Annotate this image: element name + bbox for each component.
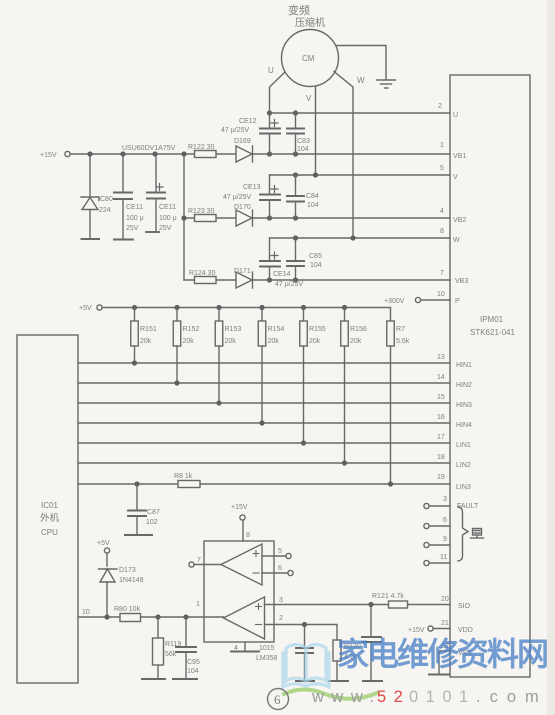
resistor R151 20k xyxy=(131,308,157,364)
svg-text:HIN2: HIN2 xyxy=(456,382,472,389)
node dot R155/LIN1 xyxy=(301,440,306,445)
svg-text:R123 30: R123 30 xyxy=(188,208,215,215)
wire compressor to ground xyxy=(337,46,387,80)
pin 7 VB3 xyxy=(440,270,468,285)
svg-text:LM358: LM358 xyxy=(256,655,278,662)
svg-text:14: 14 xyxy=(437,374,445,381)
svg-text:C95: C95 xyxy=(187,659,200,666)
pin 2 U xyxy=(438,103,458,119)
svg-text:8: 8 xyxy=(246,532,250,539)
svg-text:外机: 外机 xyxy=(40,512,60,524)
node dots on VB2 row xyxy=(181,215,298,220)
ground (C87) xyxy=(125,534,152,536)
svg-text:18: 18 xyxy=(437,454,445,461)
ground (VSS) xyxy=(429,674,449,676)
svg-text:11: 11 xyxy=(440,554,447,561)
svg-text:家电维修资料网: 家电维修资料网 xyxy=(337,636,547,672)
capacitor C95 104 xyxy=(176,617,200,678)
node dot R154/HIN4 xyxy=(259,420,264,425)
svg-text:20: 20 xyxy=(441,596,449,603)
svg-text:CE13: CE13 xyxy=(243,184,261,191)
svg-text:104: 104 xyxy=(187,668,199,675)
svg-text:25V: 25V xyxy=(126,225,139,232)
svg-text:1: 1 xyxy=(196,601,200,608)
svg-text:3: 3 xyxy=(279,597,283,604)
op-amp U2 LM358 box xyxy=(204,541,278,662)
svg-text:www.: www. xyxy=(311,688,381,706)
resistor R152 20k xyxy=(173,308,199,384)
wire VB2 feed vertical xyxy=(183,154,185,280)
svg-text:2: 2 xyxy=(279,615,283,622)
+5V terminal xyxy=(79,305,102,312)
svg-text:U: U xyxy=(268,66,274,75)
svg-text:2: 2 xyxy=(438,103,442,110)
svg-text:13: 13 xyxy=(437,354,445,361)
resistor R8 1k xyxy=(174,473,200,488)
svg-text:100 μ: 100 μ xyxy=(159,215,177,222)
svg-text:C85: C85 xyxy=(309,253,322,260)
svg-text:IPM01: IPM01 xyxy=(480,315,504,324)
ground (pin2 cap) xyxy=(296,680,314,682)
svg-text:20k: 20k xyxy=(225,338,237,345)
svg-text:104: 104 xyxy=(307,202,319,209)
pin 18 LIN2 xyxy=(437,454,471,469)
svg-text:LIN3: LIN3 xyxy=(456,484,471,491)
pin 19 LIN3 xyxy=(437,474,471,491)
svg-text:7: 7 xyxy=(440,270,444,277)
wire P row (pin 10) xyxy=(421,299,450,301)
svg-text:15: 15 xyxy=(437,394,445,401)
svg-text:1N4148: 1N4148 xyxy=(119,577,144,584)
watermark green swoosh xyxy=(284,690,377,699)
svg-text:IC01: IC01 xyxy=(41,501,58,510)
IPM U1 (IPM01 STK621-041) xyxy=(450,75,530,677)
svg-text:224: 224 xyxy=(99,207,111,214)
svg-text:VB2: VB2 xyxy=(453,217,466,224)
ground (CE11 first) xyxy=(114,239,133,241)
svg-text:D169: D169 xyxy=(234,138,251,145)
wire pin 21 VDD xyxy=(433,628,450,630)
capacitor C87 102 xyxy=(128,484,160,534)
node dots on W row xyxy=(293,235,356,240)
pin 1 VB1 xyxy=(440,142,466,160)
node junction U-C83 xyxy=(293,110,298,115)
svg-text:47 μ/25V: 47 μ/25V xyxy=(223,194,251,201)
svg-text:20k: 20k xyxy=(309,338,321,345)
svg-text:变频: 变频 xyxy=(288,3,310,17)
svg-text:R124 30: R124 30 xyxy=(189,270,216,277)
resistor R80 10k xyxy=(114,606,141,622)
svg-text:VB3: VB3 xyxy=(455,278,468,285)
wire W phase xyxy=(334,72,353,239)
+300V terminal xyxy=(384,297,421,305)
resistor R154 20k xyxy=(258,308,284,424)
svg-text:R7: R7 xyxy=(396,326,405,333)
svg-text:102: 102 xyxy=(146,519,158,526)
capacitor CE13 47u/25V xyxy=(223,175,280,218)
pin 8 W xyxy=(440,228,460,244)
node dots on +15V rail xyxy=(87,151,298,156)
svg-text:6: 6 xyxy=(278,565,282,572)
wire HIN1 row (pin 13) xyxy=(78,362,450,364)
svg-text:+5V: +5V xyxy=(97,540,110,547)
node dot C87/LIN3 xyxy=(134,481,139,486)
pin 3 FAULT xyxy=(424,496,479,510)
svg-text:STK621-041: STK621-041 xyxy=(470,328,515,337)
watermark book logo xyxy=(283,645,329,688)
wire V phase xyxy=(315,87,317,176)
node dots on R80 row xyxy=(104,614,188,619)
pin 9 xyxy=(424,536,450,548)
op-amp A (pins 5,6,7) xyxy=(221,544,262,585)
svg-text:25V: 25V xyxy=(159,225,172,232)
node dot R7/LIN3 xyxy=(388,481,393,486)
svg-text:D170: D170 xyxy=(234,204,251,211)
svg-text:C84: C84 xyxy=(306,193,319,200)
resistor R7 5.6k xyxy=(387,321,410,484)
svg-text:6: 6 xyxy=(274,692,281,707)
node junction U-CE12 xyxy=(267,110,272,115)
capacitor (under pin2 node) xyxy=(296,625,313,681)
svg-text:+15V: +15V xyxy=(408,627,425,634)
svg-text:D171: D171 xyxy=(234,268,251,275)
svg-text:CM: CM xyxy=(302,54,315,63)
capacitor C85 104 xyxy=(287,238,322,280)
+15V terminal (VDD) xyxy=(408,626,433,634)
op-amp B (pins 1,2,3) xyxy=(224,597,265,639)
capacitor CE12 47u/25V xyxy=(221,113,280,154)
ground (C95) xyxy=(173,678,197,680)
svg-text:20k: 20k xyxy=(183,338,195,345)
svg-text:FAULT: FAULT xyxy=(457,503,479,510)
svg-text:47 μ/25V: 47 μ/25V xyxy=(221,127,249,134)
ground (compressor) xyxy=(377,80,396,88)
ground (CE11 second) xyxy=(146,231,159,233)
wire +5V rail xyxy=(102,308,390,322)
capacitor CE11 (first, 100u 25V) xyxy=(114,154,144,239)
svg-text:W: W xyxy=(453,237,460,244)
resistor R124 30 xyxy=(189,270,216,284)
svg-text:LIN1: LIN1 xyxy=(456,442,471,449)
wire VB3 row (pin 7) xyxy=(184,279,450,281)
svg-text:20k: 20k xyxy=(350,338,362,345)
svg-text:4: 4 xyxy=(234,645,238,652)
page number 6 xyxy=(268,689,289,710)
svg-text:CPU: CPU xyxy=(41,528,58,537)
svg-text:R152: R152 xyxy=(183,326,200,333)
svg-text:4: 4 xyxy=(440,208,444,215)
svg-text:CE11: CE11 xyxy=(126,204,143,211)
svg-text:3: 3 xyxy=(443,496,447,503)
svg-text:R8 1k: R8 1k xyxy=(174,473,193,480)
CPU IC01 box xyxy=(17,335,78,683)
+15V terminal xyxy=(40,151,70,159)
zener diode C80 224 xyxy=(81,154,113,239)
pin 14 HIN2 xyxy=(437,374,472,389)
pin 5 input xyxy=(262,548,291,559)
svg-text:16: 16 xyxy=(437,414,445,421)
diode D173 1N4148 xyxy=(99,567,144,617)
svg-text:R153: R153 xyxy=(225,326,242,333)
pin 21 VDD xyxy=(441,620,473,634)
svg-text:P: P xyxy=(455,298,460,305)
node dots on VB3 row xyxy=(267,277,298,282)
wire HIN4 row (pin 16) xyxy=(78,422,450,424)
resistor R120 4.7k xyxy=(333,640,361,680)
pin 16 HIN4 xyxy=(437,414,472,429)
svg-text:USU60DV1A75V: USU60DV1A75V xyxy=(122,145,176,152)
svg-text:V: V xyxy=(453,174,458,181)
svg-text:5.6k: 5.6k xyxy=(396,338,410,345)
resistor R155 20k xyxy=(300,308,326,444)
svg-text:VDD: VDD xyxy=(458,627,473,634)
svg-text:19: 19 xyxy=(437,474,445,481)
ground (C80) xyxy=(82,238,100,240)
wire W row (pin 8) xyxy=(270,237,451,239)
node dots on V row xyxy=(293,172,318,177)
+15V terminal (LM358 supply) xyxy=(231,504,248,520)
svg-text:5: 5 xyxy=(440,165,444,172)
node dot R153/HIN3 xyxy=(216,400,221,405)
connector icon next to brace xyxy=(471,529,484,539)
wire U row (pin 2) xyxy=(270,112,451,114)
svg-text:VB1: VB1 xyxy=(453,153,466,160)
wire HIN2 row (pin 14) xyxy=(78,382,450,384)
svg-text:21: 21 xyxy=(441,620,449,627)
compressor CM xyxy=(282,3,339,87)
capacitor (at R121 node) xyxy=(362,605,381,681)
svg-text:R121 4.7k: R121 4.7k xyxy=(372,593,404,600)
node dot R152/HIN2 xyxy=(174,380,179,385)
svg-text:6: 6 xyxy=(443,517,447,524)
wire pin 2 row xyxy=(265,625,338,641)
svg-text:CE11: CE11 xyxy=(159,204,176,211)
node dots on +5V rail xyxy=(132,305,347,310)
svg-text:U: U xyxy=(453,112,458,119)
pin 4 ground xyxy=(231,642,259,652)
svg-text:压缩机: 压缩机 xyxy=(295,16,325,29)
svg-text:0101: 0101 xyxy=(409,688,476,706)
wire U phase xyxy=(270,72,286,113)
svg-text:HIN1: HIN1 xyxy=(456,362,472,369)
svg-text:9: 9 xyxy=(443,536,447,543)
svg-text:R154: R154 xyxy=(268,326,285,333)
svg-text:5: 5 xyxy=(278,548,282,555)
pin 20 SIO xyxy=(441,596,471,610)
svg-text:+15V: +15V xyxy=(40,152,57,159)
ground (R121 node cap) xyxy=(363,680,382,682)
wire +15V / VB1 row (pin 1) xyxy=(70,153,450,155)
wire +5V to D173 xyxy=(106,553,108,566)
capacitor CE11 (second, 100u 25V, polar) xyxy=(147,154,177,232)
resistor R119 56k xyxy=(153,617,182,678)
watermark url www.520101.com xyxy=(311,688,548,706)
svg-text:C87: C87 xyxy=(147,509,160,516)
svg-text:104: 104 xyxy=(310,262,322,269)
pin 17 LIN1 xyxy=(437,434,471,449)
svg-text:7: 7 xyxy=(197,557,201,564)
svg-text:47 μ/25V: 47 μ/25V xyxy=(275,281,303,288)
svg-text:100 μ: 100 μ xyxy=(126,215,144,222)
node dot pin2/C xyxy=(302,622,307,627)
svg-text:+300V: +300V xyxy=(384,298,405,305)
pin 11 xyxy=(424,554,450,566)
+5V terminal (clamp) xyxy=(97,540,110,553)
svg-text:20k: 20k xyxy=(268,338,280,345)
node dot R151/HIN1 xyxy=(132,360,137,365)
svg-text:HIN4: HIN4 xyxy=(456,422,472,429)
svg-text:R156: R156 xyxy=(350,326,367,333)
svg-text:C83: C83 xyxy=(297,138,310,145)
svg-text:CE12: CE12 xyxy=(239,118,257,125)
wire CPU pin10 to op-amp (R80 row) xyxy=(78,616,224,618)
svg-text:+5V: +5V xyxy=(79,305,92,312)
svg-text:V: V xyxy=(306,94,312,103)
svg-text:C80: C80 xyxy=(100,196,113,203)
paper edge shading (decorative) xyxy=(547,0,555,715)
svg-text:D173: D173 xyxy=(119,567,136,574)
svg-text:R151: R151 xyxy=(140,326,157,333)
svg-text:8: 8 xyxy=(440,228,444,235)
pin 13 HIN1 xyxy=(437,354,472,369)
svg-text:W: W xyxy=(357,76,365,85)
svg-text:1015: 1015 xyxy=(259,645,275,652)
wire pin 22 VSS xyxy=(439,651,450,673)
resistor R121 4.7k xyxy=(372,593,408,608)
wire pin 8 supply xyxy=(242,520,244,541)
pin 5 V xyxy=(440,165,458,181)
node dot R121/C96 xyxy=(368,602,373,607)
pin 7 output xyxy=(189,557,221,567)
diode D169 xyxy=(234,138,253,162)
wire LIN3 row (pin 19) xyxy=(78,483,450,485)
pin 22 VSS xyxy=(441,643,472,657)
pin 4 VB2 xyxy=(440,208,466,224)
wire LIN2 row (pin 18) xyxy=(78,462,450,464)
capacitor C83 104 xyxy=(287,113,310,154)
svg-text:10: 10 xyxy=(437,291,445,298)
svg-text:20k: 20k xyxy=(140,338,152,345)
capacitor C84 104 xyxy=(287,175,319,218)
wire VB2 row (pin 4) xyxy=(184,217,450,219)
pin 6 input xyxy=(262,565,293,576)
wire pin 3 row to SIO xyxy=(265,604,451,606)
node dot R156/LIN2 xyxy=(342,460,347,465)
wire HIN3 row (pin 15) xyxy=(78,402,450,404)
pin 15 HIN3 xyxy=(437,394,472,409)
svg-text:R155: R155 xyxy=(309,326,326,333)
resistor R153 20k xyxy=(215,308,241,404)
svg-text:SIO: SIO xyxy=(458,603,471,610)
resistor R122 30 xyxy=(188,144,216,158)
ground (R120) xyxy=(329,680,348,682)
resistor R123 30 xyxy=(188,208,216,222)
wire LIN1 row (pin 17) xyxy=(78,442,450,444)
ground (R119) xyxy=(142,678,165,680)
diode D171 xyxy=(234,268,253,288)
pin 10 P xyxy=(437,291,460,305)
resistor R156 20k xyxy=(341,308,367,464)
wire V row (pin 5) xyxy=(270,174,451,176)
svg-text:52: 52 xyxy=(377,688,410,706)
svg-text:.com: .com xyxy=(476,688,548,706)
svg-text:CE14: CE14 xyxy=(273,271,291,278)
brace for pins 3/6/9/11 xyxy=(458,507,468,561)
svg-text:R80 10k: R80 10k xyxy=(114,606,141,613)
svg-text:R122 30: R122 30 xyxy=(188,144,215,151)
capacitor CE14 47u/25V xyxy=(260,238,303,288)
svg-text:1: 1 xyxy=(440,142,444,149)
svg-text:56k: 56k xyxy=(165,651,177,658)
diode D170 xyxy=(234,204,253,226)
pin 6 xyxy=(424,517,450,529)
svg-text:10: 10 xyxy=(82,609,90,616)
svg-text:104: 104 xyxy=(297,146,309,153)
svg-text:+15V: +15V xyxy=(231,504,248,511)
svg-text:HIN3: HIN3 xyxy=(456,402,472,409)
svg-text:17: 17 xyxy=(437,434,445,441)
svg-text:LIN2: LIN2 xyxy=(456,462,471,469)
